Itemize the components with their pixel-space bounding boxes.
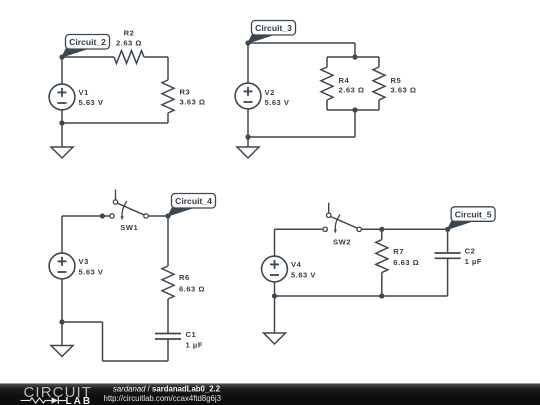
svg-text:sardanad / sardanadLab0_2.2: sardanad / sardanadLab0_2.2 [113,385,221,394]
svg-text:2.63 Ω: 2.63 Ω [116,39,142,48]
svg-text:1 µF: 1 µF [186,341,203,350]
svg-text:SW1: SW1 [120,223,138,232]
svg-text:V1: V1 [79,88,90,97]
svg-text:V2: V2 [265,88,275,97]
svg-text:R5: R5 [391,76,402,85]
svg-text:5.63 V: 5.63 V [79,268,104,277]
svg-text:Circuit_2: Circuit_2 [69,37,106,47]
svg-text:R4: R4 [339,76,350,85]
svg-text:C1: C1 [186,330,197,339]
svg-text:V3: V3 [79,257,89,266]
svg-text:5.63 V: 5.63 V [291,271,316,280]
svg-text:V4: V4 [291,260,302,269]
svg-text:2.63 Ω: 2.63 Ω [339,86,365,95]
svg-text:3.63 Ω: 3.63 Ω [180,98,206,107]
svg-text:6.63 Ω: 6.63 Ω [393,258,419,267]
svg-text:3.63 Ω: 3.63 Ω [391,86,417,95]
svg-text:1 µF: 1 µF [465,257,482,266]
svg-text:5.63 V: 5.63 V [265,98,290,107]
svg-text:5.63 V: 5.63 V [79,98,104,107]
svg-text:Circuit_5: Circuit_5 [455,209,492,219]
svg-text:SW2: SW2 [333,238,351,247]
svg-text:Circuit_3: Circuit_3 [255,23,292,33]
svg-text:LAB: LAB [66,396,93,405]
svg-text:R6: R6 [179,273,190,282]
svg-text:http://circuitlab.com/ccax4ftd: http://circuitlab.com/ccax4ftd8g6j3 [104,394,221,403]
svg-text:R7: R7 [393,247,404,256]
svg-text:C2: C2 [465,247,476,256]
svg-text:Circuit_4: Circuit_4 [175,196,212,206]
svg-text:6.63 Ω: 6.63 Ω [179,285,205,294]
svg-text:R3: R3 [180,88,191,97]
svg-text:R2: R2 [124,29,135,38]
